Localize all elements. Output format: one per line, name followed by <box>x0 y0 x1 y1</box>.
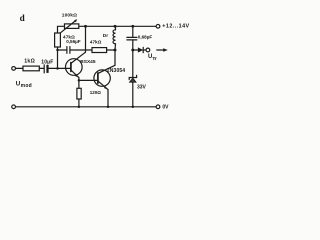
wire T2 collector vertical <box>114 50 116 65</box>
svg-text:+12...14V: +12...14V <box>162 23 189 29</box>
wire bias chain down to base node <box>57 47 59 68</box>
terminal +12V supply <box>156 24 160 28</box>
wire feedback line left <box>58 49 67 51</box>
wire T1 collector vertical <box>85 26 87 52</box>
potentiometer R1 100kΩ <box>60 19 79 33</box>
wire input <box>16 67 24 69</box>
svg-text:2N3054: 2N3054 <box>107 68 126 74</box>
wire T2 emitter down <box>107 90 109 107</box>
terminal 0V right <box>156 105 160 109</box>
wire bottom 0V rail <box>16 106 157 108</box>
node 0V at zener <box>132 106 135 109</box>
wire T1 emitter down <box>78 78 80 89</box>
svg-text:0,56µF: 0,56µF <box>66 39 81 44</box>
node rail at T1 collector <box>84 25 87 28</box>
transistor Q1 BSX45 <box>66 52 86 77</box>
wire top supply rail <box>58 26 157 33</box>
svg-text:1kΩ: 1kΩ <box>24 58 35 64</box>
svg-text:47kΩ: 47kΩ <box>90 40 102 45</box>
resistor R3 47kΩ (horizontal, feedback) <box>92 48 107 53</box>
transistor Q2 2N3054 <box>94 65 115 89</box>
terminal bottom left <box>12 105 16 109</box>
wire R5 to C1 <box>39 67 44 69</box>
wire R4 to 0V rail <box>78 99 80 107</box>
node output <box>131 49 134 52</box>
resistor R5 1kΩ <box>23 66 39 71</box>
svg-text:d: d <box>20 13 25 23</box>
wire feedback line right <box>107 49 115 51</box>
svg-text:120Ω: 120Ω <box>90 90 102 95</box>
node rail at C3 <box>131 25 134 28</box>
node base T1 <box>56 67 59 70</box>
inductor Dr (choke) <box>113 26 116 50</box>
terminal output U_Tr <box>146 48 150 52</box>
node emitter T1 / base T2 <box>78 79 81 82</box>
svg-text:100kΩ: 100kΩ <box>62 12 77 18</box>
wire base T2 <box>79 79 98 81</box>
zener diode D2 33V <box>129 50 136 107</box>
svg-text:10µF: 10µF <box>41 60 53 66</box>
svg-text:33V: 33V <box>137 85 147 91</box>
svg-text:BSX45: BSX45 <box>80 59 96 65</box>
capacitor C2 0,56µF <box>67 47 70 54</box>
node rail at choke <box>114 25 117 28</box>
diode D1 <box>133 47 146 52</box>
capacitor C3 0,68µF <box>127 26 137 50</box>
node 0V at R4 <box>78 106 81 109</box>
svg-text:0,68µF: 0,68µF <box>138 35 153 40</box>
terminal input Umod <box>12 67 16 71</box>
arrow signal direction <box>157 48 168 51</box>
wire C1 to base node <box>49 67 71 69</box>
resistor R4 120Ω <box>77 88 81 99</box>
node collector T2 <box>114 49 117 52</box>
svg-text:Dr: Dr <box>103 33 108 39</box>
wire feedback line middle <box>70 49 92 51</box>
node 0V at T2 emitter <box>107 106 110 109</box>
node feedback-left <box>56 49 59 52</box>
svg-text:0V: 0V <box>162 104 169 110</box>
resistor R2 47kΩ (vertical, bias chain) <box>55 33 61 47</box>
capacitor C1 10µF electrolytic <box>44 65 48 73</box>
